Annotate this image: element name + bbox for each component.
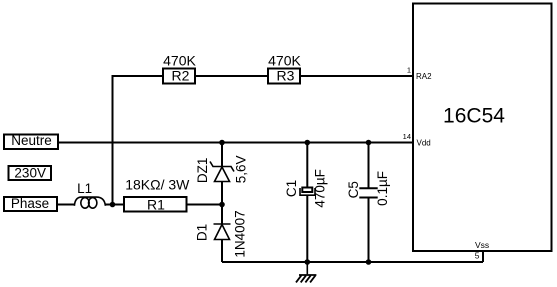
svg-text:R3: R3	[277, 68, 295, 84]
wire top net: RA2 line from left corner to IC pin 1	[113, 75, 414, 77]
svg-text:C1: C1	[284, 180, 299, 197]
svg-text:16C54: 16C54	[443, 105, 505, 128]
svg-text:0.1µF: 0.1µF	[375, 171, 390, 206]
wire C5 branch lower	[368, 198, 370, 263]
label C1	[284, 180, 299, 197]
svg-text:470K: 470K	[163, 53, 196, 69]
pin 1 label	[407, 66, 411, 75]
resistor R3	[268, 68, 300, 84]
label L1	[77, 181, 92, 196]
svg-text:R2: R2	[172, 68, 190, 84]
capacitor C5 0.1uF	[359, 188, 377, 197]
junction node C1 bottom on ground bus	[305, 259, 311, 265]
svg-text:5: 5	[475, 250, 480, 260]
svg-text:1N4007: 1N4007	[233, 210, 248, 257]
resistor R1	[124, 196, 187, 212]
svg-text:5,6V: 5,6V	[234, 156, 249, 184]
junction node C1 top on Vdd line	[305, 140, 311, 146]
wire vertical from RA2 line down to Phase node	[112, 75, 114, 205]
node 230V label box	[9, 166, 52, 181]
ground	[296, 263, 316, 282]
svg-text:D1: D1	[194, 224, 209, 241]
value 5,6V	[234, 156, 249, 184]
svg-text:470K: 470K	[268, 53, 301, 69]
label DZ1	[195, 158, 210, 184]
label D1	[194, 224, 209, 241]
junction node R1/DZ1/D1	[219, 202, 225, 208]
pin 5 label	[475, 250, 480, 260]
wire DZ1 branch vertical	[221, 143, 223, 205]
svg-text:14: 14	[403, 132, 411, 141]
junction node C5 bottom on ground bus	[366, 259, 372, 265]
node Phase terminal box	[4, 196, 57, 211]
pin 14 label	[403, 132, 411, 141]
wire Neutre line to IC pin 14 (Vdd net)	[58, 142, 413, 144]
wire C1 branch upper	[306, 143, 308, 189]
value 1N4007	[233, 210, 248, 257]
svg-text:230V: 230V	[14, 166, 46, 181]
value 470K of R3	[268, 53, 301, 69]
wire Phase line from box to L1	[57, 204, 75, 206]
wire ground bus	[222, 261, 483, 263]
value 470K of R2	[163, 53, 196, 69]
diode D1 1N4007	[214, 224, 231, 240]
wire from L1 through R1 to node at x=222	[105, 204, 222, 206]
label C5	[346, 181, 361, 198]
node Neutre terminal box	[4, 133, 58, 149]
svg-text:Neutre: Neutre	[11, 133, 52, 148]
svg-text:18KΩ/ 3W: 18KΩ/ 3W	[125, 177, 190, 193]
svg-text:C5: C5	[346, 181, 361, 198]
capacitor C1 polarized 470uF	[300, 188, 315, 196]
resistor R2	[163, 68, 195, 84]
diode DZ1 zener 5.6V	[210, 162, 234, 182]
svg-text:RA2: RA2	[416, 72, 432, 81]
value 470uF	[313, 169, 328, 208]
inductor L1	[74, 197, 105, 208]
pin Vss name	[475, 240, 489, 250]
svg-text:1: 1	[407, 66, 411, 75]
svg-text:R1: R1	[147, 196, 165, 212]
value 0.1uF	[375, 171, 390, 206]
wire D1 branch vertical down to ground bus	[221, 205, 223, 263]
svg-text:Vss: Vss	[475, 240, 489, 250]
svg-text:470µF: 470µF	[313, 169, 328, 208]
pin RA2 name	[416, 72, 432, 81]
junction node DZ1 top on Vdd line	[219, 140, 225, 146]
svg-text:Vdd: Vdd	[417, 138, 431, 147]
junction node at Phase/L1/R1	[110, 202, 116, 208]
wire IC pin 5 drop	[482, 251, 484, 262]
junction node C5 top on Vdd line	[366, 140, 372, 146]
svg-text:DZ1: DZ1	[195, 158, 210, 184]
pin Vdd name	[417, 138, 431, 147]
svg-text:L1: L1	[77, 181, 92, 196]
op-amp U1 : IC 16C54 body	[413, 4, 552, 252]
svg-text:Phase: Phase	[11, 196, 49, 211]
wire C1 branch lower	[306, 195, 308, 262]
value 18KOhm/3W of R1	[125, 177, 190, 193]
wire C5 branch upper	[368, 143, 370, 189]
